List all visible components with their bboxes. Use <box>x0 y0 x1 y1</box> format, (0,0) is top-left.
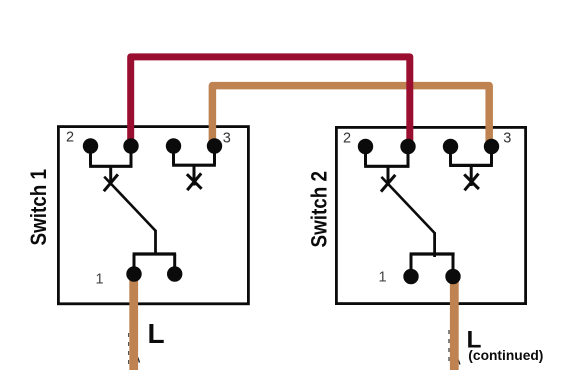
svg-text:L: L <box>148 318 165 349</box>
svg-text:Switch 1: Switch 1 <box>26 169 51 246</box>
svg-text:Switch 2: Switch 2 <box>306 171 331 248</box>
svg-text:3: 3 <box>223 131 231 147</box>
svg-text:2: 2 <box>343 130 351 146</box>
svg-text:(continued): (continued) <box>468 348 543 363</box>
svg-text:1: 1 <box>96 272 104 288</box>
svg-text:2: 2 <box>66 130 74 146</box>
svg-text:3: 3 <box>503 130 511 146</box>
svg-text:1: 1 <box>379 270 387 286</box>
